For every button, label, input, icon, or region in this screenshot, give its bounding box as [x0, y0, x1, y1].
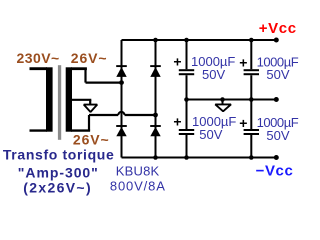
svg-text:+: + — [239, 115, 247, 131]
node junction dot bottom rail at cap column 1 — [184, 155, 189, 160]
node AC2 junction dot — [153, 113, 158, 118]
svg-text:Transfo torique: Transfo torique — [3, 147, 115, 163]
wire ground stub — [89, 100, 91, 105]
wire bottom -Vcc rail — [122, 157, 277, 159]
node junction dot top rail at right column — [153, 38, 158, 43]
svg-text:"Amp-300": "Amp-300" — [18, 164, 99, 180]
node 0V terminal dot — [274, 97, 279, 102]
wire middle 0V rail — [187, 99, 277, 101]
svg-text:26V~: 26V~ — [71, 50, 108, 66]
capacitor C2 plates — [244, 70, 259, 74]
node junction dot top rail at cap column 2 — [249, 38, 254, 43]
transformer T1 primary bottom lead — [30, 129, 48, 131]
svg-text:−Vcc: −Vcc — [256, 163, 294, 180]
wire capacitor column 1 — [186, 40, 188, 158]
node junction dot 0V rail at cap column 2 — [249, 97, 254, 102]
svg-text:KBU8K: KBU8K — [116, 164, 160, 179]
wire AC2 hop over left column — [118, 112, 124, 115]
node junction dot bottom rail at right column — [153, 155, 158, 160]
ground symbol at transformer center tap — [84, 105, 97, 112]
wire AC1 vertical jog — [84, 69, 86, 83]
svg-text:50V: 50V — [202, 67, 225, 82]
node junction dot bottom rail at cap column 2 — [249, 155, 254, 160]
svg-text:+: + — [173, 114, 181, 130]
wire secondary top lead AC1 — [71, 67, 87, 70]
capacitor C4 plates — [244, 130, 259, 134]
svg-text:+Vcc: +Vcc — [259, 20, 297, 37]
diode D3 bottom left of bridge — [116, 126, 127, 136]
svg-text:50V: 50V — [266, 128, 289, 143]
svg-text:+: + — [173, 53, 181, 69]
wire AC2 vertical jog — [88, 115, 90, 131]
node +Vcc terminal dot — [274, 38, 279, 43]
svg-text:+: + — [239, 55, 247, 71]
svg-text:800V/8A: 800V/8A — [110, 179, 166, 194]
node AC1 junction dot — [119, 80, 124, 85]
svg-text:230V~: 230V~ — [17, 50, 60, 66]
capacitor C3 plates — [179, 130, 194, 134]
wire AC2 horizontal to hop — [89, 114, 118, 116]
wire secondary center tap lead — [71, 99, 91, 101]
wire capacitor column 2 — [250, 40, 252, 158]
node junction dot top rail at cap column 1 — [184, 38, 189, 43]
wire secondary bottom lead AC2 — [71, 129, 90, 131]
diode D4 bottom right of bridge — [150, 126, 161, 136]
wire bridge left column — [121, 40, 123, 158]
transformer T1 core — [58, 65, 61, 140]
node junction dot 0V rail at ground — [220, 97, 225, 102]
node -Vcc terminal dot — [274, 155, 279, 160]
transformer T1 secondary winding bar — [66, 67, 72, 131]
svg-text:(2x26V~): (2x26V~) — [23, 180, 92, 196]
wire AC1 to bridge — [86, 81, 122, 83]
node junction dot 0V rail at cap column 1 — [184, 97, 189, 102]
ground symbol on 0V rail — [215, 100, 231, 112]
wire top +Vcc rail — [122, 39, 277, 41]
wire bridge right column — [155, 40, 157, 158]
transformer T1 primary top lead — [30, 67, 48, 70]
diode D1 top left of bridge — [116, 66, 127, 77]
svg-text:26V~: 26V~ — [73, 132, 110, 148]
diode D2 top right of bridge — [150, 66, 161, 77]
svg-text:50V: 50V — [266, 67, 289, 82]
svg-text:50V: 50V — [199, 127, 222, 142]
transformer T1 primary winding bar — [46, 67, 53, 131]
wire AC2 to bridge right column — [125, 114, 156, 116]
capacitor C1 plates — [179, 70, 194, 74]
